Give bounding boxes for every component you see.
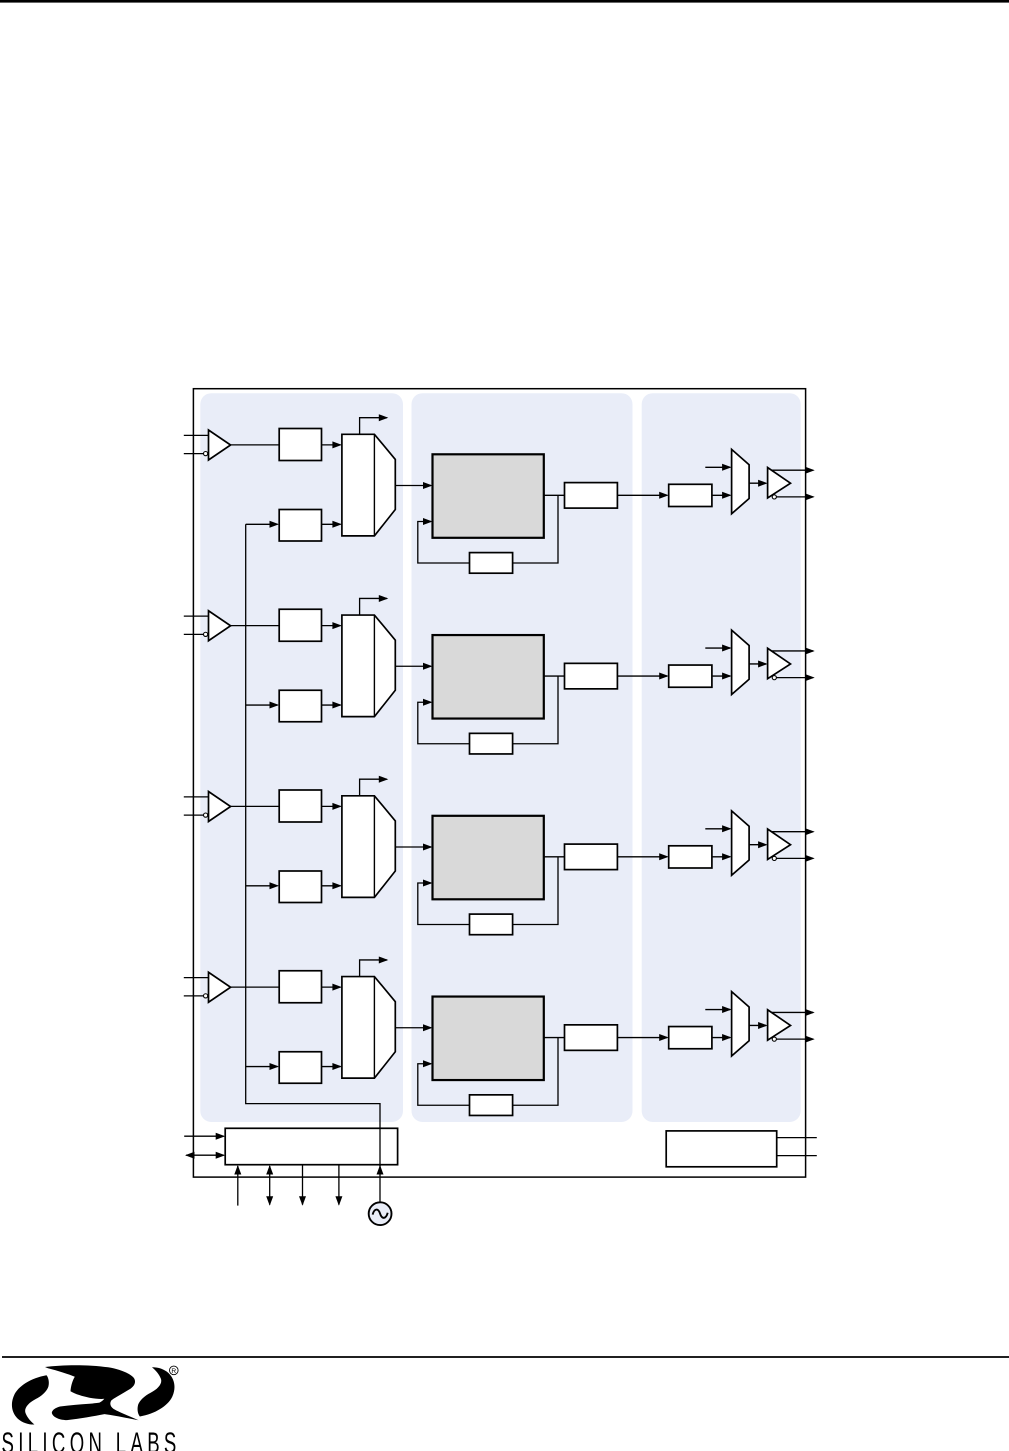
svg-text:SILICON LABS: SILICON LABS <box>2 1427 177 1451</box>
svg-text:R: R <box>171 1368 176 1375</box>
